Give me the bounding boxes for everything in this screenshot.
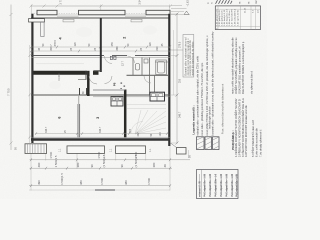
svg-text:m: m — [239, 2, 242, 4]
svg-text:P6: P6 — [113, 82, 117, 86]
svg-text:7.viz detaily výkresové č: 7.viz detaily výkresové č — [259, 129, 263, 157]
svg-text:(1 500)1 5: (1 500)1 5 — [102, 154, 106, 167]
svg-text:1.08 schodiště 6,1: 1.08 schodiště 6,1 — [234, 8, 237, 26]
svg-text:PVC odpad 50a - 1,05: PVC odpad 50a - 1,05 — [232, 173, 234, 197]
svg-text:místnost č.1.05: místnost č.1.05 — [199, 181, 202, 197]
svg-text:(1 500)1 5: (1 500)1 5 — [134, 154, 138, 167]
svg-text:2: 2 — [122, 37, 126, 39]
svg-text:1 500: 1 500 — [147, 177, 151, 184]
svg-text:255: 255 — [178, 78, 181, 83]
svg-text:380: 380 — [152, 162, 156, 167]
svg-text:255: 255 — [111, 42, 114, 47]
svg-text:368: 368 — [116, 46, 119, 51]
svg-text:4.OTVORY PRO ROZVODY instalací: 4.OTVORY PRO ROZVODY instalací vést dle — [244, 105, 248, 157]
svg-text:nové zdivo - přizdívky porobet: nové zdivo - přizdívky porobeton YTONG t… — [200, 62, 204, 135]
svg-text:±0,000: ±0,000 — [58, 73, 61, 81]
svg-text:90: 90 — [90, 164, 94, 168]
svg-text:1 500(1 5: 1 500(1 5 — [60, 173, 64, 185]
svg-text:3: 3 — [96, 117, 100, 119]
svg-text:PVC odpad 50a - 1,05: PVC odpad 50a - 1,05 — [221, 173, 223, 197]
svg-text:14,25: 14,25 — [245, 7, 247, 13]
svg-text:120: 120 — [159, 132, 162, 137]
svg-text:346.7: 346.7 — [45, 126, 48, 133]
svg-text:490: 490 — [37, 180, 41, 185]
svg-text:1 500: 1 500 — [49, 151, 53, 158]
svg-text:DLE PLATNÝCH NOREM a technolog: DLE PLATNÝCH NOREM a technologických p — [241, 41, 245, 94]
svg-text:3 545: 3 545 — [138, 0, 142, 5]
svg-text:6: 6 — [58, 117, 62, 119]
svg-text:346.7: 346.7 — [178, 111, 181, 118]
svg-text:378.5: 378.5 — [178, 41, 181, 48]
svg-text:m2: m2 — [255, 0, 258, 4]
svg-text:380: 380 — [124, 180, 128, 185]
svg-text:305: 305 — [129, 128, 132, 133]
svg-text:1.07 hala 8,60 PV: 1.07 hala 8,60 PV — [232, 9, 234, 26]
svg-text:490: 490 — [37, 162, 41, 167]
svg-text:380: 380 — [76, 162, 80, 167]
svg-text:309.7: 309.7 — [50, 44, 53, 51]
svg-text:PVC odpad 100a - 1,0: PVC odpad 100a - 1,0 — [216, 173, 218, 197]
svg-text:120: 120 — [74, 42, 77, 47]
svg-text:1 500(1 5: 1 500(1 5 — [54, 155, 58, 167]
svg-text:stavbě dle skutečnosti, viz vý: stavbě dle skutečnosti, viz výkres — [191, 41, 194, 76]
svg-text:bourané zdivo - vybourávané ot: bourané zdivo - vybourávané otvory zdiva… — [210, 31, 214, 136]
svg-text:Legenda materiálů :: Legenda materiálů : — [192, 105, 196, 134]
svg-text:nutno ověřit na stavbě skutečn: nutno ověřit na stavbě skutečné rozměry … — [230, 37, 234, 94]
svg-text:1 500: 1 500 — [100, 177, 104, 184]
svg-text:3 770: 3 770 — [59, 0, 63, 5]
svg-text:380: 380 — [79, 180, 83, 185]
svg-text:viz výkresová část d: viz výkresová část d — [249, 71, 253, 94]
svg-text:13 7: 13 7 — [122, 61, 125, 66]
svg-text:n.: n. — [211, 1, 214, 3]
svg-text:OSAZOVAT DLE statického posouz: OSAZOVAT DLE statického posouzení, vš — [237, 46, 241, 94]
svg-text:49: 49 — [163, 164, 167, 168]
svg-text:310: 310 — [156, 46, 159, 51]
svg-text:PVC odpad 50a - 1,05: PVC odpad 50a - 1,05 — [227, 173, 229, 197]
svg-text:6.vše ověřit na stavbě dle: 6.vše ověřit na stavbě dle — [255, 128, 259, 157]
svg-text:346.7: 346.7 — [99, 126, 102, 133]
svg-text:PVC odpad 50a - 1,05: PVC odpad 50a - 1,05 — [210, 173, 212, 197]
svg-text:90: 90 — [120, 164, 124, 168]
svg-text:237: 237 — [137, 132, 140, 137]
svg-text:7 750: 7 750 — [7, 88, 11, 96]
svg-text:1.09 spíž 1,30 ke: 1.09 spíž 1,30 ke — [238, 9, 240, 26]
svg-text:m: m — [248, 2, 251, 4]
svg-text:Pozn.: výkresová část viz příl: Pozn.: výkresová část viz přílohy dokume… — [222, 83, 225, 134]
svg-text:+2,620: +2,620 — [187, 0, 190, 7]
svg-text:PVC odvod 50a - 1,05: PVC odvod 50a - 1,05 — [236, 173, 238, 197]
svg-text:378.5: 378.5 — [54, 40, 57, 47]
svg-text:1 500: 1 500 — [97, 151, 101, 158]
svg-text:120: 120 — [149, 42, 152, 47]
svg-text:PVC odpad 50a - 1,05: PVC odpad 50a - 1,05 — [205, 173, 207, 197]
